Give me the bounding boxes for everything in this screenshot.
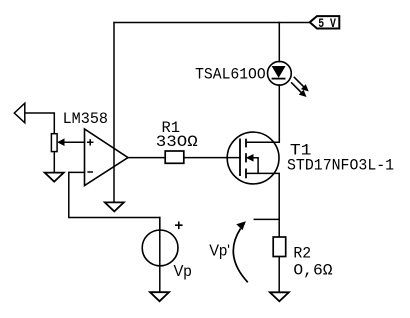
svg-text:R2: R2 (293, 245, 311, 263)
terminal input arrow (14, 103, 24, 123)
annotation Vp' arc (233, 229, 248, 283)
svg-text:TSAL61OO: TSAL61OO (195, 66, 266, 84)
svg-text:Vp': Vp' (209, 242, 230, 259)
ground below potentiometer (45, 173, 64, 182)
wire pot to ground (53, 152, 55, 173)
label plus of Vp (175, 222, 183, 230)
transistor T1 drain channel segment (245, 139, 247, 148)
wire top rail 5V (114, 22, 310, 24)
LED D1 circle (268, 61, 292, 85)
wire right rail to LED (278, 23, 280, 62)
wire op-amp V+ drop (113, 23, 115, 203)
transistor T1 gate bar (239, 139, 241, 177)
svg-text:Vp: Vp (174, 263, 192, 280)
transistor T1 body arrow head (246, 154, 254, 162)
transistor T1 body channel segment (245, 153, 247, 162)
potentiometer wiper arrow (57, 138, 64, 146)
svg-text:LM358: LM358 (63, 110, 108, 128)
wire input terminal to potentiometer (25, 113, 55, 134)
wire wiper to op-amp plus input (60, 141, 85, 143)
potentiometer P1 body (51, 134, 57, 152)
transistor T1 body circle (227, 132, 279, 184)
transistor T1 body arrow wire (253, 158, 259, 174)
wire R2 to ground (278, 257, 280, 293)
svg-text:STD17NFO3L-1: STD17NFO3L-1 (287, 156, 394, 174)
LED light arrow 1 (294, 77, 309, 92)
wire R1 to gate (184, 157, 240, 159)
supply flag 5V (310, 16, 340, 28)
wire inverting input feedback (69, 172, 160, 230)
source Vp circle (142, 230, 178, 266)
LED D1 cathode bar (272, 78, 286, 80)
svg-text:33OΩ: 33OΩ (156, 133, 198, 151)
svg-text:O,6Ω: O,6Ω (293, 262, 332, 280)
op-amp U1 LM358 (85, 129, 129, 186)
LED light arrow 2 (291, 82, 306, 97)
annotation Vp' arrow head (236, 221, 246, 230)
resistor R1 (165, 151, 184, 163)
op-amp minus marking (87, 171, 93, 173)
svg-text:5 V: 5 V (318, 16, 336, 31)
wire Vp' measure tick (254, 218, 279, 220)
transistor T1 drain stub (246, 141, 279, 143)
wire LED cathode to drain (246, 85, 279, 142)
ground below op-amp (105, 202, 124, 211)
LED D1 triangle (272, 66, 286, 78)
wire through Vp source (159, 218, 161, 293)
ground below R2 (270, 292, 289, 301)
op-amp plus marking (87, 139, 93, 145)
resistor R2 (273, 237, 286, 257)
wire op-amp output to R1 (128, 157, 165, 159)
ground below Vp (150, 292, 169, 301)
wire source to R2 (246, 173, 279, 237)
transistor T1 source channel segment (245, 169, 247, 179)
